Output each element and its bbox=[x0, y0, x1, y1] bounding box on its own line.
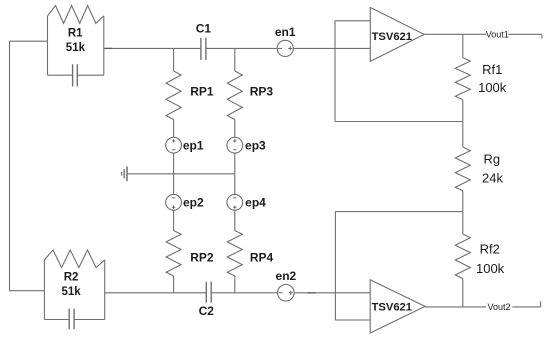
svg-text:51k: 51k bbox=[62, 286, 82, 298]
svg-text:ep4: ep4 bbox=[245, 196, 266, 210]
wire Vout1 segment and end hook bbox=[508, 34, 542, 38]
svg-text:RP3: RP3 bbox=[250, 85, 274, 99]
wire Vout1 node down to Rf1 bbox=[462, 34, 464, 57]
wire feedback vertical down to U2 -input bbox=[334, 212, 336, 320]
label 100k (Rf1) bbox=[478, 80, 507, 95]
wire U2 output to Vout2 bbox=[425, 306, 486, 308]
capacitor C2 bbox=[206, 282, 211, 303]
wire ground bus horizontal bbox=[127, 173, 235, 175]
label RP2 bbox=[190, 251, 214, 265]
voltage source en2 bbox=[278, 285, 295, 302]
label RP1 bbox=[190, 85, 214, 99]
svg-text:ep3: ep3 bbox=[245, 138, 266, 152]
wire R2 box right edge bbox=[104, 260, 106, 320]
resistor Rg bbox=[455, 147, 470, 191]
wire en1 to op-amp U1 bbox=[293, 47, 370, 49]
svg-text:Rf1: Rf1 bbox=[482, 62, 502, 77]
node Vout2 bbox=[487, 302, 510, 312]
svg-text:C1: C1 bbox=[196, 22, 212, 36]
wire C2 to en2 bbox=[211, 292, 277, 294]
svg-text:RP4: RP4 bbox=[250, 251, 274, 265]
wire feedback Rf1/Rg junction to left bbox=[335, 121, 463, 123]
wire ep2 to RP2 bbox=[173, 210, 175, 230]
label R2 bbox=[64, 272, 79, 284]
wire feedback vertical up to U1 +input bbox=[334, 21, 336, 122]
svg-text:RP1: RP1 bbox=[190, 85, 214, 99]
label 51k (R1) bbox=[66, 42, 86, 54]
label ep2 bbox=[183, 196, 204, 210]
wire top to RP1 bbox=[173, 48, 175, 71]
wire Rf2 to Vout2 node bbox=[462, 279, 464, 307]
label en2 bbox=[276, 269, 297, 283]
svg-text:Rg: Rg bbox=[483, 151, 500, 166]
wire RP3 to ep3 bbox=[234, 120, 236, 138]
op-amp U2 TSV621 bbox=[370, 280, 425, 333]
wire ep1 to ground bus bbox=[173, 153, 175, 174]
label RP3 bbox=[250, 85, 274, 99]
resistor RP2 bbox=[166, 231, 181, 277]
wire Vout2 segment and end hook bbox=[512, 301, 540, 307]
wire U1 output to Vout1 bbox=[424, 33, 486, 35]
svg-text:C2: C2 bbox=[199, 304, 215, 318]
capacitor C1 bbox=[201, 38, 206, 60]
node Vout1 bbox=[486, 29, 509, 39]
resistor Rf1 bbox=[455, 58, 470, 100]
wire C1 to en1 bbox=[206, 47, 277, 49]
label Rf2 bbox=[480, 242, 500, 257]
capacitor across R2 (bottom of box) bbox=[44, 309, 104, 330]
wire feedback Rg/Rf2 junction to left bbox=[335, 211, 462, 213]
voltage source ep3 bbox=[227, 137, 243, 153]
svg-text:24k: 24k bbox=[482, 171, 503, 186]
resistor RP1 bbox=[166, 71, 181, 120]
wire into U1 upper input bbox=[335, 20, 371, 22]
wire ground bus to ep2 bbox=[173, 174, 175, 195]
label 51k (R2) bbox=[62, 286, 82, 298]
label ep4 bbox=[245, 196, 266, 210]
svg-text:Vout1: Vout1 bbox=[486, 29, 509, 39]
svg-text:en2: en2 bbox=[276, 269, 297, 283]
voltage source ep4 bbox=[227, 194, 243, 210]
svg-text:100k: 100k bbox=[478, 80, 507, 95]
wire R2 to C2 bbox=[105, 292, 207, 294]
wire top to RP3 bbox=[234, 48, 236, 71]
svg-text:R1: R1 bbox=[68, 28, 83, 40]
ground bbox=[122, 167, 127, 182]
wire into U2 lower input bbox=[335, 319, 370, 321]
label C1 bbox=[196, 22, 212, 36]
wire left rail vertical bbox=[9, 41, 11, 291]
svg-text:100k: 100k bbox=[476, 261, 505, 276]
label Rg bbox=[483, 151, 500, 166]
op-amp U1 TSV621 bbox=[370, 7, 424, 61]
capacitor across R1 (bottom of box) bbox=[48, 64, 104, 86]
wire R1 box left edge bbox=[47, 16, 49, 75]
wire ep4 to RP4 bbox=[234, 210, 236, 230]
resistor R1 51k (zigzag top of box) bbox=[48, 6, 104, 24]
wire R2 box left edge bbox=[43, 260, 45, 320]
label 100k (Rf2) bbox=[476, 261, 505, 276]
wire bottom-left into R2 bbox=[9, 290, 44, 292]
svg-text:Rf2: Rf2 bbox=[480, 242, 500, 257]
wire Rg to Rf2 bbox=[462, 191, 464, 234]
svg-text:51k: 51k bbox=[66, 42, 86, 54]
wire RP2 to bottom wire bbox=[173, 276, 175, 293]
label RP4 bbox=[250, 251, 274, 265]
svg-text:TSV621: TSV621 bbox=[372, 301, 412, 313]
svg-text:ep1: ep1 bbox=[183, 138, 204, 152]
resistor Rf2 bbox=[455, 234, 470, 279]
label ep1 bbox=[183, 138, 204, 152]
resistor RP3 bbox=[227, 71, 242, 120]
label en1 bbox=[275, 25, 296, 39]
label 24k (Rg) bbox=[482, 171, 503, 186]
resistor R2 51k (zigzag top of box) bbox=[44, 250, 104, 268]
wire RP1 to ep1 bbox=[173, 120, 175, 138]
voltage source ep2 bbox=[166, 194, 182, 210]
resistor RP4 bbox=[227, 231, 242, 277]
wire R1 to C1 bbox=[104, 47, 201, 49]
wire ground bus to ep4 bbox=[234, 174, 236, 195]
svg-text:ep2: ep2 bbox=[183, 196, 204, 210]
label R1 bbox=[68, 28, 83, 40]
label C2 bbox=[199, 304, 215, 318]
label ep3 bbox=[245, 138, 266, 152]
wire Rf1 to Rg bbox=[462, 100, 464, 147]
wire RP4 to bottom wire bbox=[234, 276, 236, 293]
svg-text:Vout2: Vout2 bbox=[487, 302, 510, 312]
wire en2 to op-amp U2 bbox=[294, 292, 370, 294]
svg-text:en1: en1 bbox=[275, 25, 296, 39]
label Rf1 bbox=[482, 62, 502, 77]
wire R1 box right edge bbox=[103, 16, 105, 75]
svg-text:R2: R2 bbox=[64, 272, 79, 284]
svg-text:TSV621: TSV621 bbox=[372, 31, 412, 43]
voltage source en1 bbox=[277, 40, 293, 56]
svg-text:RP2: RP2 bbox=[190, 251, 214, 265]
wire ep3 to ground bus bbox=[234, 153, 236, 174]
voltage source ep1 bbox=[166, 137, 182, 153]
wire top-left into R1 bbox=[9, 40, 48, 42]
